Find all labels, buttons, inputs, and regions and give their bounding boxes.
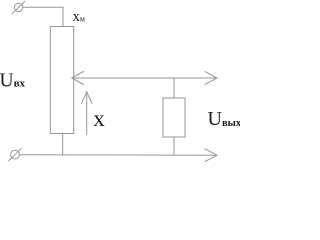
- svg-text:xм: xм: [73, 9, 85, 25]
- wiper arrowhead left: [72, 72, 84, 85]
- terminal slash bottom-left: [9, 148, 22, 161]
- svg-text:Uвх: Uвх: [0, 70, 26, 91]
- svg-text:Uвых: Uвых: [208, 108, 241, 130]
- wire top vertical stub: [62, 7, 64, 26]
- terminal output bottom-left: [11, 150, 20, 159]
- svg-text:x: x: [93, 106, 105, 131]
- wire top horizontal: [23, 6, 63, 8]
- wire load top stub: [173, 78, 175, 98]
- wiper arrowhead right: [205, 72, 217, 85]
- bottom arrowhead right: [205, 149, 217, 162]
- displacement arrowhead up: [82, 92, 92, 104]
- resistor load body: [163, 98, 185, 137]
- wire pot bottom stub: [62, 134, 64, 156]
- wire bottom horizontal: [19, 154, 215, 156]
- resistor potentiometer body: [50, 27, 73, 134]
- terminal input top-left: [14, 3, 22, 11]
- displacement arrow x: [86, 92, 88, 135]
- terminal slash top-left: [12, 1, 25, 13]
- wire load bottom stub: [173, 137, 175, 155]
- wiper line: [73, 77, 217, 79]
